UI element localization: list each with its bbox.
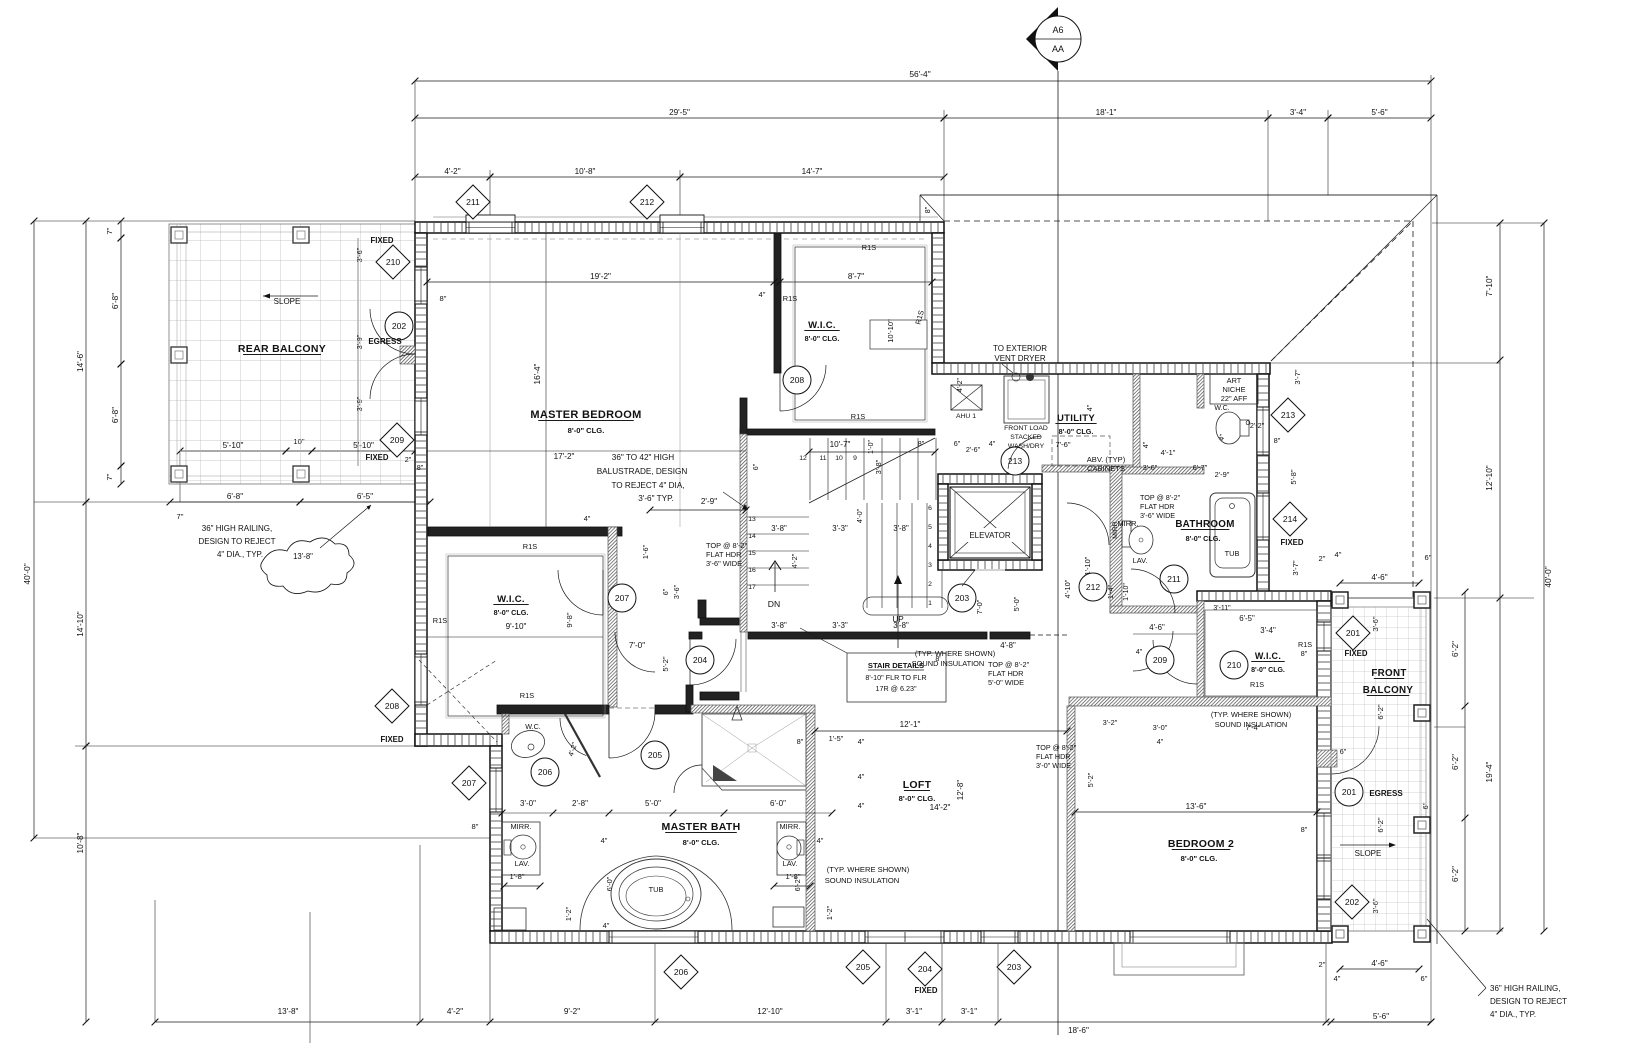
- svg-text:6": 6": [661, 588, 670, 595]
- svg-text:1'-6": 1'-6": [641, 544, 650, 559]
- svg-text:4": 4": [858, 737, 865, 746]
- svg-text:SOUND INSULATION: SOUND INSULATION: [1215, 720, 1288, 729]
- svg-text:36" TO 42" HIGH: 36" TO 42" HIGH: [612, 453, 674, 462]
- svg-text:6": 6": [751, 463, 760, 470]
- svg-text:8": 8": [923, 206, 932, 213]
- svg-text:4" DIA., TYP.: 4" DIA., TYP.: [217, 550, 263, 559]
- svg-text:6": 6": [1425, 553, 1432, 562]
- svg-text:W.I.C.: W.I.C.: [808, 320, 836, 331]
- svg-text:207: 207: [462, 778, 477, 788]
- svg-text:ELEVATOR: ELEVATOR: [969, 531, 1011, 540]
- svg-text:16'-4": 16'-4": [533, 363, 542, 384]
- svg-text:206: 206: [538, 767, 553, 777]
- svg-text:1'-2": 1'-2": [825, 905, 834, 920]
- svg-text:9'-10": 9'-10": [506, 622, 527, 631]
- svg-text:4'-6": 4'-6": [1371, 959, 1387, 968]
- svg-text:13'-6": 13'-6": [1186, 802, 1207, 811]
- svg-text:3'-0": 3'-0": [520, 799, 536, 808]
- svg-text:18'-1": 18'-1": [1096, 108, 1117, 117]
- svg-text:17R @ 6.23": 17R @ 6.23": [875, 684, 916, 693]
- svg-text:FIXED: FIXED: [381, 735, 404, 744]
- svg-text:3'-1": 3'-1": [906, 1007, 922, 1016]
- svg-text:2": 2": [1319, 960, 1326, 969]
- svg-text:208: 208: [385, 701, 400, 711]
- svg-text:FIXED: FIXED: [1345, 649, 1368, 658]
- svg-text:4": 4": [1143, 441, 1150, 448]
- svg-text:EGRESS: EGRESS: [1369, 789, 1403, 798]
- svg-text:NICHE: NICHE: [1223, 385, 1246, 394]
- svg-text:DN: DN: [768, 599, 780, 609]
- svg-text:2": 2": [1319, 554, 1326, 563]
- svg-text:3'-6" WIDE: 3'-6" WIDE: [706, 559, 742, 568]
- svg-text:17'-2": 17'-2": [554, 452, 575, 461]
- svg-text:4": 4": [1136, 647, 1143, 656]
- svg-text:8'-7": 8'-7": [848, 272, 864, 281]
- svg-text:11: 11: [819, 455, 826, 462]
- svg-text:10'-8": 10'-8": [575, 167, 596, 176]
- svg-text:6'-8": 6'-8": [227, 492, 243, 501]
- svg-text:7'-10": 7'-10": [1485, 275, 1494, 296]
- svg-text:8'-0" CLG.: 8'-0" CLG.: [1181, 854, 1218, 863]
- svg-text:4": 4": [858, 801, 865, 810]
- svg-text:TOP @ 8'-2": TOP @ 8'-2": [706, 541, 748, 550]
- svg-text:FIXED: FIXED: [1281, 538, 1304, 547]
- svg-text:18'-6": 18'-6": [1068, 1026, 1089, 1035]
- svg-text:3'-6" TYP.: 3'-6" TYP.: [638, 494, 674, 503]
- svg-text:213: 213: [1281, 410, 1296, 420]
- svg-text:2'-8": 2'-8": [572, 799, 588, 808]
- svg-text:9'-8": 9'-8": [565, 612, 574, 627]
- svg-text:FRONT: FRONT: [1371, 668, 1406, 679]
- svg-text:36" HIGH RAILING,: 36" HIGH RAILING,: [202, 524, 272, 533]
- svg-text:MASTER BEDROOM: MASTER BEDROOM: [530, 409, 641, 421]
- svg-text:6'-8": 6'-8": [111, 407, 120, 423]
- svg-text:14: 14: [748, 533, 756, 540]
- svg-text:208: 208: [790, 375, 805, 385]
- svg-text:7'-0": 7'-0": [975, 599, 984, 614]
- svg-text:3'-8": 3'-8": [893, 524, 909, 533]
- svg-text:1'-8": 1'-8": [509, 872, 524, 881]
- svg-text:R1S: R1S: [1298, 640, 1312, 649]
- svg-text:ABV. (TYP): ABV. (TYP): [1087, 455, 1126, 464]
- svg-text:15: 15: [748, 550, 756, 557]
- svg-text:4": 4": [989, 439, 996, 448]
- svg-text:4": 4": [1157, 737, 1164, 746]
- svg-text:1'-4": 1'-4": [1108, 585, 1115, 599]
- svg-text:BALUSTRADE, DESIGN: BALUSTRADE, DESIGN: [597, 467, 688, 476]
- svg-text:207: 207: [615, 593, 630, 603]
- svg-text:12'-8": 12'-8": [956, 780, 965, 801]
- svg-text:8'-0" CLG.: 8'-0" CLG.: [683, 838, 720, 847]
- svg-text:4": 4": [1334, 974, 1341, 983]
- svg-text:4": 4": [1087, 404, 1094, 411]
- svg-text:CABINETS: CABINETS: [1087, 464, 1125, 473]
- svg-text:204: 204: [918, 964, 933, 974]
- svg-text:4": 4": [601, 836, 608, 845]
- svg-text:4'-6": 4'-6": [1149, 623, 1165, 632]
- svg-text:FIXED: FIXED: [371, 236, 394, 245]
- svg-text:AHU 1: AHU 1: [956, 413, 976, 420]
- svg-text:R1S: R1S: [523, 542, 537, 551]
- svg-text:7": 7": [105, 473, 114, 480]
- svg-text:2'-9": 2'-9": [1215, 470, 1230, 479]
- svg-text:2'-6": 2'-6": [966, 445, 981, 454]
- svg-text:(TYP. WHERE SHOWN): (TYP. WHERE SHOWN): [1211, 710, 1291, 719]
- svg-text:TO EXTERIOR: TO EXTERIOR: [993, 344, 1047, 353]
- svg-text:5: 5: [928, 524, 932, 531]
- svg-text:REAR BALCONY: REAR BALCONY: [238, 343, 326, 355]
- svg-text:8'-0" CLG.: 8'-0" CLG.: [494, 608, 529, 617]
- svg-text:SOUND INSULATION: SOUND INSULATION: [912, 659, 985, 668]
- svg-text:8'-0" CLG.: 8'-0" CLG.: [568, 426, 605, 435]
- svg-text:211: 211: [1167, 574, 1181, 584]
- svg-text:W.C.: W.C.: [1214, 405, 1229, 412]
- svg-text:FRONT LOAD: FRONT LOAD: [1004, 425, 1048, 432]
- svg-text:202: 202: [392, 321, 407, 331]
- svg-text:29'-5": 29'-5": [669, 108, 690, 117]
- svg-text:3'-0": 3'-0": [1153, 723, 1168, 732]
- svg-text:(TYP. WHERE SHOWN): (TYP. WHERE SHOWN): [827, 865, 910, 874]
- svg-text:4'-0": 4'-0": [855, 508, 864, 523]
- svg-text:7'-0": 7'-0": [629, 641, 645, 650]
- svg-text:3'-8": 3'-8": [893, 621, 909, 630]
- svg-text:212: 212: [1086, 582, 1101, 592]
- svg-text:12'-1": 12'-1": [900, 720, 921, 729]
- svg-text:4": 4": [584, 514, 591, 523]
- svg-text:17: 17: [748, 584, 756, 591]
- svg-text:SLOPE: SLOPE: [1355, 849, 1382, 858]
- svg-text:4'-2": 4'-2": [957, 378, 964, 392]
- svg-text:6'-2": 6'-2": [1451, 866, 1460, 882]
- svg-text:4": 4": [759, 290, 766, 299]
- svg-text:R1S: R1S: [851, 412, 865, 421]
- svg-text:214: 214: [1283, 514, 1298, 524]
- svg-text:8'-0" CLG.: 8'-0" CLG.: [1186, 534, 1221, 543]
- svg-text:8'-0" CLG.: 8'-0" CLG.: [1059, 427, 1094, 436]
- svg-text:201: 201: [1346, 628, 1361, 638]
- svg-text:12: 12: [799, 455, 807, 462]
- svg-text:3'-2": 3'-2": [1103, 718, 1118, 727]
- svg-text:2'-2": 2'-2": [1250, 421, 1265, 430]
- svg-text:W.I.C.: W.I.C.: [497, 594, 525, 605]
- svg-text:3'-8": 3'-8": [771, 621, 787, 630]
- svg-text:1'-5": 1'-5": [829, 734, 844, 743]
- svg-text:3'-0" WIDE: 3'-0" WIDE: [1036, 761, 1071, 770]
- svg-text:6'-5": 6'-5": [1239, 614, 1255, 623]
- svg-text:10'-7": 10'-7": [830, 440, 851, 449]
- svg-text:4: 4: [928, 543, 932, 550]
- svg-text:8": 8": [797, 737, 804, 746]
- svg-text:8": 8": [440, 294, 447, 303]
- svg-text:LAV.: LAV.: [783, 859, 798, 868]
- svg-text:8": 8": [417, 463, 424, 472]
- svg-text:TOP @ 8'-2": TOP @ 8'-2": [988, 660, 1030, 669]
- svg-text:4'-6": 4'-6": [1371, 573, 1387, 582]
- svg-text:8'-0" CLG.: 8'-0" CLG.: [805, 334, 840, 343]
- svg-text:2": 2": [405, 455, 412, 464]
- svg-text:9'-2": 9'-2": [564, 1007, 580, 1016]
- svg-text:209: 209: [390, 435, 405, 445]
- svg-text:8'-0" CLG.: 8'-0" CLG.: [899, 794, 936, 803]
- svg-text:DESIGN TO REJECT: DESIGN TO REJECT: [1490, 997, 1567, 1006]
- svg-text:4": 4": [858, 772, 865, 781]
- svg-text:1'-2": 1'-2": [564, 906, 573, 921]
- svg-text:TOP @ 8'-2": TOP @ 8'-2": [1140, 493, 1181, 502]
- svg-text:TO REJECT 4" DIA,: TO REJECT 4" DIA,: [611, 481, 684, 490]
- svg-text:4" DIA., TYP.: 4" DIA., TYP.: [1490, 1010, 1536, 1019]
- svg-text:13'-8": 13'-8": [293, 552, 313, 561]
- svg-text:2'-9": 2'-9": [701, 497, 717, 506]
- svg-text:AA: AA: [1052, 44, 1064, 54]
- svg-text:1'-10": 1'-10": [1083, 556, 1092, 575]
- svg-text:FLAT HDR: FLAT HDR: [988, 669, 1023, 678]
- svg-text:4'-2": 4'-2": [444, 167, 460, 176]
- svg-text:6: 6: [928, 505, 932, 512]
- svg-text:1'-10": 1'-10": [1123, 583, 1130, 601]
- svg-text:5'-0": 5'-0": [1012, 596, 1021, 611]
- svg-text:FLAT HDR: FLAT HDR: [1140, 502, 1174, 511]
- svg-text:5'-2": 5'-2": [661, 656, 670, 671]
- svg-text:R1S: R1S: [433, 616, 447, 625]
- svg-text:14'-7": 14'-7": [802, 167, 823, 176]
- svg-text:202: 202: [1345, 897, 1360, 907]
- svg-text:12'-10": 12'-10": [1485, 465, 1494, 491]
- svg-text:1'-8": 1'-8": [785, 872, 800, 881]
- svg-text:3'-6" WIDE: 3'-6" WIDE: [1140, 511, 1175, 520]
- svg-text:MIRR.: MIRR.: [780, 822, 801, 831]
- svg-text:DESIGN TO REJECT: DESIGN TO REJECT: [198, 537, 275, 546]
- svg-text:2: 2: [928, 581, 932, 588]
- svg-text:5'-8": 5'-8": [1289, 469, 1298, 484]
- svg-text:6": 6": [1421, 974, 1428, 983]
- svg-text:12'-10": 12'-10": [757, 1007, 783, 1016]
- svg-text:ART: ART: [1227, 376, 1242, 385]
- svg-text:R1S: R1S: [1250, 680, 1264, 689]
- svg-text:3'-8": 3'-8": [874, 459, 883, 474]
- svg-text:203: 203: [1007, 962, 1022, 972]
- svg-text:BATHROOM: BATHROOM: [1175, 519, 1234, 530]
- svg-text:213: 213: [1008, 456, 1023, 466]
- svg-text:TUB: TUB: [1225, 549, 1240, 558]
- svg-text:EGRESS: EGRESS: [368, 337, 402, 346]
- svg-text:6'-7": 6'-7": [1193, 463, 1208, 472]
- svg-text:MIRR.: MIRR.: [511, 822, 532, 831]
- svg-text:3'-1": 3'-1": [961, 1007, 977, 1016]
- svg-text:W.I.C.: W.I.C.: [1255, 651, 1281, 661]
- svg-text:8": 8": [472, 822, 479, 831]
- svg-text:205: 205: [648, 750, 663, 760]
- svg-text:211: 211: [466, 197, 480, 207]
- svg-text:210: 210: [386, 257, 401, 267]
- svg-text:FLAT HDR: FLAT HDR: [706, 550, 741, 559]
- svg-text:3'-6": 3'-6": [1143, 463, 1158, 472]
- svg-text:4'-2": 4'-2": [790, 553, 799, 568]
- svg-text:7'-6": 7'-6": [1055, 440, 1070, 449]
- svg-text:212: 212: [640, 197, 655, 207]
- svg-text:6": 6": [1340, 747, 1347, 756]
- svg-text:14'-2": 14'-2": [930, 803, 951, 812]
- svg-text:14'-10": 14'-10": [76, 611, 85, 637]
- svg-text:MASTER BATH: MASTER BATH: [662, 821, 741, 833]
- svg-text:TUB: TUB: [649, 885, 664, 894]
- svg-text:SOUND INSULATION: SOUND INSULATION: [825, 876, 900, 885]
- svg-text:FLAT HDR: FLAT HDR: [1036, 752, 1070, 761]
- svg-text:8'-10" FLR TO FLR: 8'-10" FLR TO FLR: [865, 673, 926, 682]
- svg-text:3'-4": 3'-4": [1260, 626, 1276, 635]
- svg-text:14'-6": 14'-6": [76, 351, 85, 372]
- svg-text:13'-8": 13'-8": [278, 1007, 299, 1016]
- svg-text:13: 13: [748, 516, 756, 523]
- svg-text:3'-7": 3'-7": [1291, 560, 1300, 575]
- svg-text:LOFT: LOFT: [903, 779, 932, 791]
- svg-text:5'-6": 5'-6": [1373, 1012, 1389, 1021]
- svg-text:204: 204: [693, 655, 708, 665]
- svg-text:R1S: R1S: [783, 294, 797, 303]
- svg-text:MIRR: MIRR: [1112, 521, 1119, 538]
- svg-text:7": 7": [177, 512, 184, 521]
- svg-text:22" AFF: 22" AFF: [1221, 394, 1248, 403]
- svg-text:BALCONY: BALCONY: [1363, 685, 1414, 696]
- svg-text:6": 6": [954, 439, 961, 448]
- svg-text:3'-4": 3'-4": [1290, 108, 1306, 117]
- svg-text:3'-3": 3'-3": [832, 621, 848, 630]
- svg-text:R1S: R1S: [862, 243, 876, 252]
- svg-text:4": 4": [603, 921, 610, 930]
- svg-text:FIXED: FIXED: [366, 453, 389, 462]
- svg-text:5'-0" WIDE: 5'-0" WIDE: [988, 678, 1024, 687]
- svg-text:3'-3": 3'-3": [832, 524, 848, 533]
- svg-text:4'-2": 4'-2": [447, 1007, 463, 1016]
- svg-text:4'-8": 4'-8": [1000, 641, 1016, 650]
- svg-text:210: 210: [1227, 660, 1242, 670]
- svg-text:16: 16: [748, 567, 756, 574]
- svg-text:9: 9: [853, 455, 857, 462]
- svg-text:205: 205: [856, 962, 871, 972]
- svg-text:36" HIGH RAILING,: 36" HIGH RAILING,: [1490, 984, 1560, 993]
- svg-text:6'-8": 6'-8": [111, 293, 120, 309]
- svg-text:TOP @ 8'-2": TOP @ 8'-2": [1036, 743, 1077, 752]
- svg-text:BEDROOM 2: BEDROOM 2: [1168, 838, 1234, 850]
- svg-text:6'-0": 6'-0": [770, 799, 786, 808]
- svg-text:8'-0" CLG.: 8'-0" CLG.: [1251, 667, 1285, 674]
- svg-text:5'-6": 5'-6": [1371, 108, 1387, 117]
- svg-text:A6: A6: [1052, 25, 1063, 35]
- svg-text:3'-8": 3'-8": [771, 524, 787, 533]
- svg-text:19'-2": 19'-2": [590, 272, 611, 281]
- svg-text:1'-0": 1'-0": [868, 440, 875, 454]
- svg-text:(TYP. WHERE SHOWN): (TYP. WHERE SHOWN): [915, 649, 995, 658]
- svg-text:W.C.: W.C.: [525, 722, 541, 731]
- svg-text:10'-8": 10'-8": [76, 832, 85, 853]
- svg-text:5'-2": 5'-2": [1086, 772, 1095, 787]
- svg-text:206: 206: [674, 967, 689, 977]
- svg-text:6'-2": 6'-2": [1451, 754, 1460, 770]
- svg-text:LAV.: LAV.: [515, 859, 530, 868]
- svg-text:10: 10: [835, 455, 843, 462]
- svg-text:R1S: R1S: [520, 691, 534, 700]
- svg-text:STACKED: STACKED: [1010, 434, 1042, 441]
- svg-text:3'-11": 3'-11": [1213, 605, 1231, 612]
- svg-text:40'-0": 40'-0": [22, 563, 32, 584]
- svg-text:203: 203: [955, 593, 970, 603]
- svg-text:6'-5": 6'-5": [357, 492, 373, 501]
- svg-text:10'-10": 10'-10": [886, 319, 895, 343]
- svg-text:40'-0": 40'-0": [1543, 566, 1553, 587]
- svg-text:5'-0": 5'-0": [645, 799, 661, 808]
- svg-text:8": 8": [1301, 825, 1308, 834]
- svg-text:8": 8": [1274, 436, 1281, 445]
- svg-text:6'-2": 6'-2": [1451, 641, 1460, 657]
- svg-text:UTILITY: UTILITY: [1057, 413, 1095, 424]
- svg-text:201: 201: [1342, 787, 1357, 797]
- svg-text:VENT DRYER: VENT DRYER: [994, 354, 1045, 363]
- svg-text:4": 4": [817, 836, 824, 845]
- svg-text:MIRR.: MIRR.: [1118, 519, 1139, 528]
- svg-text:19'-4": 19'-4": [1485, 761, 1494, 782]
- svg-text:8": 8": [1301, 649, 1308, 658]
- svg-text:56'-4": 56'-4": [909, 69, 930, 79]
- svg-text:4": 4": [1335, 550, 1342, 559]
- svg-text:3: 3: [928, 562, 932, 569]
- svg-text:3'-7": 3'-7": [1293, 369, 1302, 384]
- svg-text:209: 209: [1153, 655, 1168, 665]
- svg-text:1: 1: [928, 600, 932, 607]
- svg-text:3'-6": 3'-6": [672, 584, 681, 599]
- svg-text:4'-1": 4'-1": [1161, 448, 1176, 457]
- svg-text:LAV.: LAV.: [1133, 556, 1148, 565]
- svg-text:FIXED: FIXED: [915, 986, 938, 995]
- svg-text:7": 7": [105, 227, 114, 234]
- svg-text:8": 8": [918, 439, 925, 448]
- svg-text:SLOPE: SLOPE: [274, 297, 301, 306]
- svg-text:4'-10": 4'-10": [1063, 579, 1072, 598]
